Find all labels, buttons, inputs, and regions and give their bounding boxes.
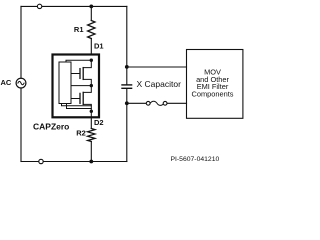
op-amp U1 CAPZero package box xyxy=(53,55,100,118)
terminal open circle top rail xyxy=(37,4,41,8)
node internal D2 dot xyxy=(90,110,93,113)
transistor Q1 channel bar xyxy=(82,68,84,80)
terminal open circle bottom rail xyxy=(39,159,43,163)
transistor Q1 source lead xyxy=(83,79,91,85)
wire U1 mid node tap to control block xyxy=(71,85,91,87)
svg-text:X Capacitor: X Capacitor xyxy=(137,79,182,89)
wire to interconnect left xyxy=(127,102,147,104)
svg-text:Components: Components xyxy=(192,89,234,98)
wire X branch upper (top rail to X capacitor) xyxy=(126,6,128,84)
node junction dot top rail xyxy=(89,5,93,9)
wire top rail xyxy=(21,5,127,7)
svg-text:PI-5607-041210: PI-5607-041210 xyxy=(171,156,220,163)
wire U1 gate lead Q1 xyxy=(71,73,80,75)
transistor Q2 gate bar xyxy=(79,93,81,103)
resistor R1 xyxy=(88,21,95,39)
wire to MOV box bottom xyxy=(167,102,187,104)
wire U1 control block top lead to pin D1 node xyxy=(66,60,91,62)
svg-text:D1: D1 xyxy=(94,41,104,50)
transistor Q2 channel bar xyxy=(82,92,84,104)
resistor R2 xyxy=(88,129,95,142)
MOV and EMI filter components box xyxy=(187,50,243,119)
node internal mid dot xyxy=(90,84,93,87)
AC source V1 circle xyxy=(16,78,26,88)
wire bottom rail xyxy=(21,161,127,163)
capacitor CX plate bottom xyxy=(122,87,132,89)
interconnect wavy wire xyxy=(150,101,164,105)
wire U1 control block bottom lead A xyxy=(62,104,92,106)
wire pin D2 of U1 to R2 xyxy=(90,117,92,129)
transistor Q2 source lead xyxy=(83,104,91,117)
transistor Q1 drain lead xyxy=(83,60,91,67)
node junction dot X branch top xyxy=(125,65,129,69)
wire R1 top lead xyxy=(90,6,92,20)
capacitor CX plate top xyxy=(122,84,132,86)
svg-text:R1: R1 xyxy=(74,25,84,34)
AC source sine wave xyxy=(18,81,24,84)
node junction dot X branch bottom xyxy=(125,101,129,105)
wire left vertical upper (AC top lead) xyxy=(20,6,22,78)
wire left vertical lower (AC bottom lead) xyxy=(20,88,22,162)
wire R2 bottom lead xyxy=(90,142,92,162)
transistor Q1 gate bar xyxy=(79,69,81,79)
svg-text:D2: D2 xyxy=(94,118,104,127)
wire U1 control block bottom lead B xyxy=(67,104,92,109)
U1 internal control block xyxy=(59,62,71,104)
node internal D1 dot xyxy=(90,59,93,62)
wire to MOV box top xyxy=(127,66,187,68)
node junction dot bottom rail xyxy=(89,160,93,164)
svg-text:AC: AC xyxy=(1,78,12,87)
svg-text:CAPZero: CAPZero xyxy=(33,121,69,131)
wire U1 gate lead Q2 xyxy=(71,98,80,100)
connector circle right of interconnect xyxy=(163,101,167,105)
svg-text:R2: R2 xyxy=(76,129,86,138)
connector circle left of interconnect xyxy=(146,101,150,105)
wire X branch lower (X capacitor to bottom rail) xyxy=(126,89,128,162)
wire R1 to pin D1 of U1 xyxy=(90,39,92,55)
transistor Q2 drain lead xyxy=(83,86,91,93)
